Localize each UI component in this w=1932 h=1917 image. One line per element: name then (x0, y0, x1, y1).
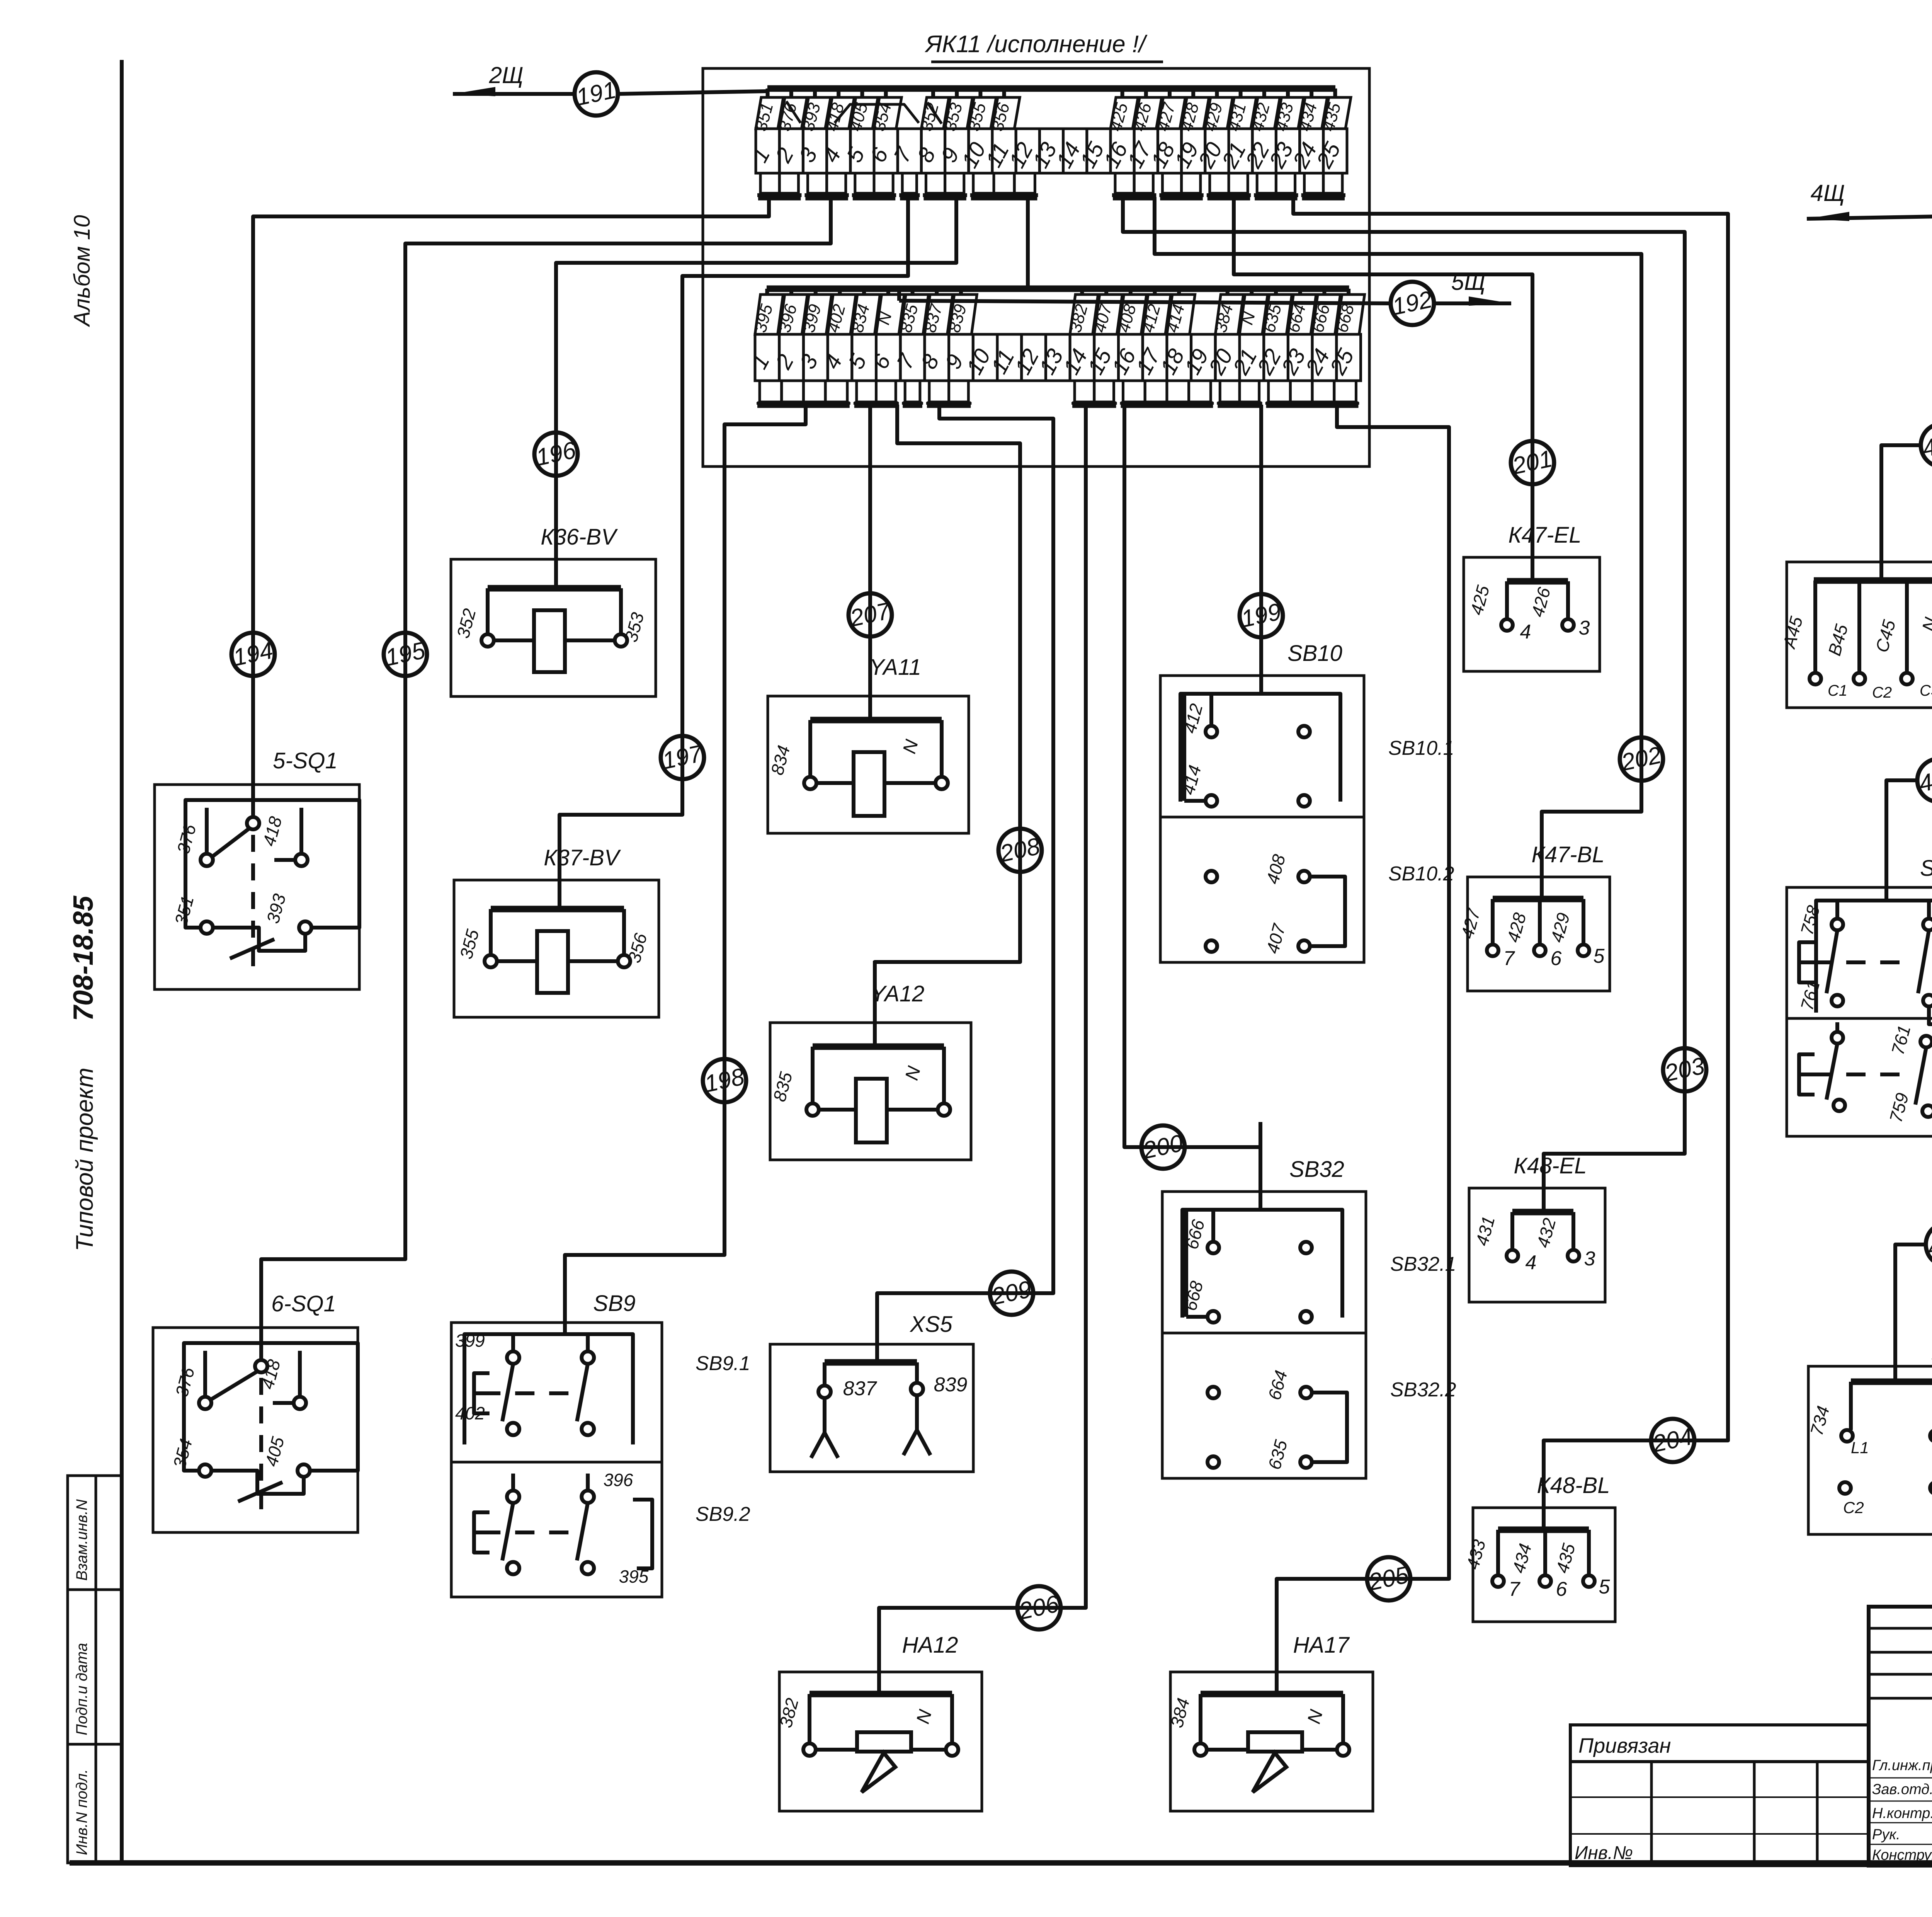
svg-text:Рук.: Рук. (1872, 1827, 1900, 1843)
svg-text:Зав.отд.: Зав.отд. (1872, 1781, 1932, 1798)
SB9.2 section (507, 1491, 519, 1503)
svg-text:К47-EL: К47-EL (1509, 523, 1582, 548)
svg-text:К48-BL: К48-BL (1537, 1473, 1610, 1498)
node 198 (702, 1059, 747, 1102)
svg-text:SB32: SB32 (1289, 1157, 1344, 1182)
svg-text:Инв.№: Инв.№ (1575, 1843, 1633, 1863)
svg-text:402: 402 (455, 1403, 485, 1423)
SB40.2 section (1832, 1032, 1843, 1044)
ЯК11 lower bus to 5Щ stub (897, 289, 901, 301)
svg-text:4: 4 (1520, 621, 1531, 643)
wire 203 from ЯК11 to К48-EL (1123, 197, 1685, 1206)
SB9.2 terminal wires (633, 1500, 652, 1568)
wire 208 from ЯК11 to YA12 (875, 405, 1020, 1039)
svg-text:ЯК11 /исполнение !/: ЯК11 /исполнение !/ (925, 31, 1148, 58)
node 203 (1662, 1048, 1707, 1091)
title block outer (1869, 1607, 1932, 1866)
svg-text:5: 5 (1594, 945, 1605, 967)
node 201 (1510, 441, 1555, 484)
Привязан inner lines (1650, 1762, 1653, 1866)
node 195 (383, 633, 428, 676)
svg-text:Инв.N подл.: Инв.N подл. (73, 1769, 90, 1855)
svg-text:2Щ: 2Щ (489, 62, 524, 88)
sidebar box Подп.и дата (68, 1590, 122, 1744)
ЯК11 upper row tabs (760, 173, 779, 193)
svg-text:399: 399 (455, 1331, 485, 1351)
SB40.1 section (1816, 901, 1932, 1013)
svg-text:4Щ: 4Щ (1811, 180, 1845, 206)
node 449 (1925, 1223, 1932, 1266)
wire 202 from ЯК11 to К47-BL (1155, 197, 1641, 899)
svg-text:HA12: HA12 (902, 1633, 958, 1658)
svg-text:6-SQ1: 6-SQ1 (271, 1291, 336, 1316)
node 197 (660, 736, 706, 779)
node 205 (1366, 1557, 1411, 1600)
svg-text:YA12: YA12 (871, 981, 925, 1006)
svg-text:5-SQ1: 5-SQ1 (273, 748, 338, 773)
svg-text:Конструкт.: Конструкт. (1872, 1847, 1932, 1863)
svg-text:837: 837 (843, 1377, 878, 1400)
ЯК11 lower terminal row (767, 286, 1349, 292)
wire 195 from ЯК11 to 6-SQ1 (261, 195, 831, 1339)
svg-text:6: 6 (1556, 1578, 1567, 1600)
terminal block ЯК11 outer box (703, 68, 1369, 466)
sidebar box Взам.инв.N (68, 1476, 122, 1590)
node 208 (997, 829, 1043, 872)
sidebar box Инв.N подл. (68, 1744, 122, 1863)
svg-text:К48-EL: К48-EL (1514, 1153, 1587, 1178)
svg-text:5: 5 (1599, 1576, 1611, 1598)
svg-text:XS5: XS5 (909, 1312, 952, 1337)
svg-text:L1: L1 (1851, 1439, 1869, 1457)
svg-text:SB32.1: SB32.1 (1390, 1253, 1456, 1275)
node 191 (574, 72, 619, 116)
node 206 (1016, 1586, 1061, 1629)
svg-text:3: 3 (1579, 617, 1590, 639)
wire 199 from ЯК11 to SB10 (1259, 405, 1263, 694)
node 200 (1140, 1125, 1185, 1169)
node 196 (534, 432, 578, 476)
svg-text:К37-BV: К37-BV (544, 845, 621, 870)
svg-text:7: 7 (1503, 947, 1515, 970)
svg-text:С1: С1 (1828, 682, 1847, 699)
svg-text:Альбом 10: Альбом 10 (70, 215, 95, 327)
pushbutton SB9 outer box (451, 1323, 662, 1597)
wire 194 from ЯК11 to 5-SQ1 (253, 195, 769, 796)
svg-text:Гл.инж.пр: Гл.инж.пр (1872, 1757, 1932, 1774)
svg-text:SB40: SB40 (1920, 856, 1932, 881)
svg-text:3: 3 (1584, 1248, 1595, 1270)
svg-text:YA11: YA11 (869, 655, 921, 680)
wire to 4Щ with arrow (1807, 216, 1932, 219)
svg-text:SB10.1: SB10.1 (1388, 737, 1454, 759)
svg-text:SB10.2: SB10.2 (1388, 863, 1454, 885)
svg-text:Подп.и дата: Подп.и дата (73, 1643, 90, 1735)
wire 206 from ЯК11 to HA12 (879, 405, 1086, 1694)
svg-text:К36-BV: К36-BV (541, 524, 618, 550)
wire 207 from ЯК11 to YA11 (868, 405, 872, 720)
svg-text:SB32.2: SB32.2 (1390, 1379, 1456, 1401)
svg-text:6: 6 (1551, 947, 1562, 970)
node 207 (847, 593, 893, 637)
sheet frame bottom border (70, 1860, 1932, 1866)
svg-text:839: 839 (934, 1374, 968, 1396)
svg-text:Н.контр.: Н.контр. (1872, 1805, 1932, 1822)
svg-text:SB10: SB10 (1287, 641, 1342, 666)
wire to 5Щ with arrow (899, 301, 1391, 303)
wire 200 from ЯК11 to SB32 (1124, 405, 1260, 1208)
node 194 (231, 633, 276, 676)
svg-text:SB9.1: SB9.1 (696, 1352, 750, 1375)
svg-text:HA17: HA17 (1293, 1633, 1350, 1658)
pushbutton SB40 outer box (1787, 887, 1932, 1136)
wire 198 from ЯК11 to SB9 (565, 405, 806, 1334)
svg-text:396: 396 (604, 1470, 633, 1490)
sheet frame left border (120, 60, 124, 1863)
SB9.1 section (464, 1334, 633, 1444)
node 202 (1619, 737, 1664, 781)
svg-text:SB9.2: SB9.2 (696, 1503, 750, 1525)
svg-text:С2: С2 (1872, 684, 1892, 701)
svg-text:708-18.85: 708-18.85 (68, 896, 99, 1021)
wire to 2Щ with arrow (453, 92, 575, 96)
svg-text:SB9: SB9 (593, 1291, 636, 1316)
ЯК11 upper terminal row (767, 85, 1335, 92)
jumper upper row to lower bus ЯК11 (1026, 197, 1030, 289)
svg-text:7: 7 (1509, 1578, 1521, 1600)
wire 205 from ЯК11 to HA17 (1277, 405, 1449, 1694)
wire 197 from ЯК11 to К37-BV (560, 195, 908, 912)
node 209 (989, 1272, 1034, 1315)
svg-text:С3: С3 (1920, 682, 1932, 699)
node 204 (1650, 1419, 1695, 1462)
wire 201 from ЯК11 to К47-EL (1234, 197, 1532, 581)
wire 196 from ЯК11 to К36-BV (556, 195, 956, 591)
svg-text:Привязан: Привязан (1578, 1734, 1671, 1757)
svg-text:4: 4 (1526, 1251, 1537, 1274)
node 192 (1390, 282, 1435, 325)
svg-text:Типовой проект: Типовой проект (71, 1067, 98, 1251)
ЯК11 lower row tabs (760, 381, 782, 402)
title block left columns (1869, 1627, 1932, 1630)
svg-text:Взам.инв.N: Взам.инв.N (73, 1499, 90, 1581)
wire 204 from ЯК11 to К48-BL (1293, 197, 1728, 1528)
node 447 (1920, 424, 1932, 467)
wire 209 from ЯК11 to XS5 (877, 405, 1053, 1362)
node 448 (1917, 759, 1932, 802)
Привязан table (1570, 1725, 1869, 1866)
node 199 (1239, 594, 1284, 637)
ЯК11 upper label row jumper links (786, 101, 801, 123)
svg-text:С2: С2 (1843, 1498, 1864, 1517)
